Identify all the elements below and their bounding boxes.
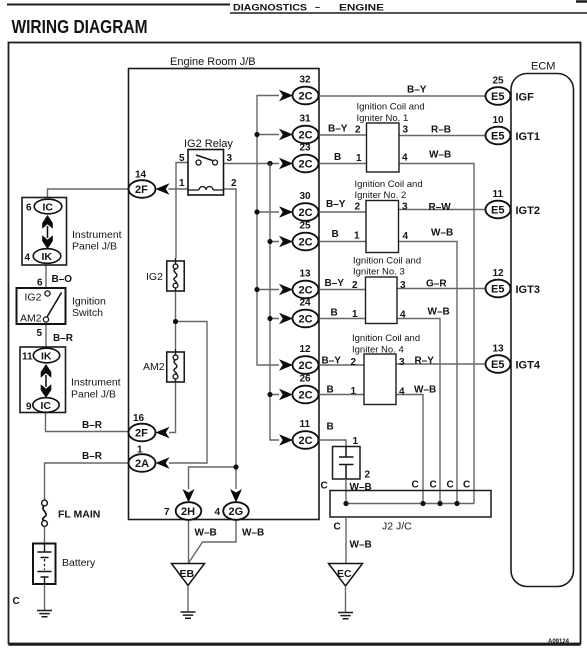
junction block Instrument Panel J/B (lower) <box>20 347 121 413</box>
connector E5 pin 11 (IGT2) <box>486 189 540 218</box>
svg-text:4: 4 <box>215 507 221 518</box>
connector 2C pin 25 <box>279 221 319 251</box>
svg-text:IGT4: IGT4 <box>516 360 541 372</box>
wire Battery to ground <box>44 584 46 610</box>
svg-text:DIAGNOSTICS: DIAGNOSTICS <box>233 3 307 14</box>
connector E5 pin 10 (IGT1) <box>486 115 540 144</box>
connector 2G pin 4 <box>215 489 249 520</box>
connector E5 pin 12 (IGT3) <box>486 268 540 297</box>
connector IC pin 6 (upper J/B) <box>26 199 62 214</box>
wire W-B coil 1 pin 4 to J2 J/C <box>399 164 474 504</box>
internal double arrow (upper J/B) <box>42 215 53 249</box>
wire W-B coil 2 pin 4 to J2 J/C <box>399 242 458 504</box>
svg-text:2: 2 <box>351 357 357 368</box>
svg-text:2: 2 <box>355 202 361 213</box>
svg-text:2A: 2A <box>135 458 149 470</box>
svg-text:Igniter No. 2: Igniter No. 2 <box>355 190 407 201</box>
fusible link FL MAIN <box>42 500 101 526</box>
svg-text:C: C <box>321 481 328 492</box>
wire B 2C(11) to capacitor <box>319 440 347 447</box>
wire R-Y coil 4 pin 3 to ECM IGT4 <box>396 363 486 365</box>
svg-text:EC: EC <box>337 568 352 580</box>
svg-text:C: C <box>430 480 437 491</box>
svg-text:25: 25 <box>300 221 312 232</box>
svg-text:5: 5 <box>37 328 43 339</box>
wire B 2C(26) to coil 4 pin 1 <box>319 394 365 396</box>
svg-text:Instrument: Instrument <box>72 229 122 241</box>
ignition coil and igniter No. 1 <box>328 102 451 173</box>
svg-text:3: 3 <box>227 153 233 164</box>
svg-text:5: 5 <box>179 153 185 164</box>
svg-text:G–R: G–R <box>426 279 447 290</box>
wire capacitor to J2 J/C <box>345 479 347 504</box>
svg-text:W–B: W–B <box>242 528 264 539</box>
svg-text:1: 1 <box>353 436 359 447</box>
wire R-B coil 1 pin 3 to ECM IGT1 <box>399 135 486 137</box>
svg-text:AM2: AM2 <box>20 313 42 325</box>
wire W-B coil 4 pin 4 to J2 J/C <box>396 395 423 504</box>
svg-text:Battery: Battery <box>62 557 96 569</box>
svg-text:2: 2 <box>231 178 237 189</box>
wire relay pin 5 to fuse IG2 <box>176 163 188 259</box>
svg-text:R–B: R–B <box>431 125 451 136</box>
svg-text:B: B <box>327 385 334 396</box>
svg-text:10: 10 <box>493 115 505 126</box>
svg-text:1: 1 <box>352 309 358 320</box>
wire relay pin 3 to 2C(23) <box>224 163 280 165</box>
wire B-Y 2C(13) to coil 3 pin 2 <box>319 289 366 291</box>
svg-text:FL MAIN: FL MAIN <box>58 509 100 521</box>
junction block Instrument Panel J/B (upper) <box>22 198 122 266</box>
wire B-O from 2F(14) to Instrument Panel J/B upper <box>48 189 129 198</box>
relay IG2 Relay <box>179 138 237 195</box>
ignition coil and igniter No. 3 <box>325 256 450 324</box>
svg-text:2H: 2H <box>181 506 195 518</box>
svg-text:Engine Room J/B: Engine Room J/B <box>170 56 256 68</box>
svg-text:Ignition Coil and: Ignition Coil and <box>353 256 421 267</box>
svg-text:W–B: W–B <box>428 307 450 318</box>
svg-text:B–R: B–R <box>82 420 103 431</box>
svg-text:11: 11 <box>493 189 504 200</box>
svg-text:B–Y: B–Y <box>322 356 342 367</box>
svg-text:25: 25 <box>493 76 505 87</box>
ground EB <box>172 564 205 586</box>
svg-text:1: 1 <box>179 178 185 189</box>
connector 2C pin 32 <box>279 75 319 105</box>
svg-text:J2 J/C: J2 J/C <box>382 521 412 533</box>
svg-text:Switch: Switch <box>72 307 103 319</box>
wire R-W coil 2 pin 3 to ECM IGT2 <box>399 209 486 211</box>
svg-text:Panel J/B: Panel J/B <box>72 241 117 253</box>
svg-text:24: 24 <box>300 298 312 309</box>
wire internal bus of J2 J/C <box>346 503 474 505</box>
svg-text:Igniter No. 3: Igniter No. 3 <box>353 267 405 278</box>
svg-text:ENGINE: ENGINE <box>339 3 384 14</box>
connector 2C pin 12 <box>279 344 319 374</box>
svg-text:B–Y: B–Y <box>325 278 345 289</box>
svg-text:Instrument: Instrument <box>71 377 121 389</box>
connector 2C pin 30 <box>279 191 319 221</box>
svg-text:W–B: W–B <box>350 482 372 493</box>
svg-text:Ignition Coil and: Ignition Coil and <box>352 333 420 344</box>
svg-text:R–W: R–W <box>429 202 452 213</box>
wire B-Y 2C(12) to coil 4 pin 2 <box>319 364 365 366</box>
svg-text:W–B: W–B <box>431 228 453 239</box>
connector E5 pin 13 (IGT4) <box>486 344 541 373</box>
svg-text:Ignition Coil and: Ignition Coil and <box>355 179 423 190</box>
connector IK pin 4 (upper J/B) <box>25 249 61 264</box>
svg-text:W–B: W–B <box>195 528 217 539</box>
battery <box>33 544 96 585</box>
svg-text:9: 9 <box>26 402 32 413</box>
svg-text:23: 23 <box>300 143 312 154</box>
svg-text:W–B: W–B <box>350 540 372 551</box>
svg-text:11: 11 <box>22 352 33 363</box>
svg-text:11: 11 <box>300 419 311 430</box>
switch Ignition Switch <box>17 288 107 325</box>
svg-text:B: B <box>331 308 338 319</box>
fuse AM2 <box>167 349 185 382</box>
svg-text:4: 4 <box>399 387 405 398</box>
internal double arrow (lower J/B) <box>41 364 52 398</box>
wire W-B coil 3 pin 4 to J2 J/C <box>397 319 440 504</box>
junction node (IG2/AM2) <box>173 319 178 324</box>
junction node (bus2 tap) <box>267 161 272 166</box>
capacitor (noise filter condenser) <box>333 447 361 480</box>
wire fuse AM2 to 2F(16) <box>169 382 176 433</box>
svg-text:3: 3 <box>400 280 406 291</box>
bus wire 1 (B-Y feeds) <box>257 96 279 366</box>
connector 2H pin 7 <box>164 489 201 520</box>
svg-text:IG2 Relay: IG2 Relay <box>184 138 233 150</box>
wire Ignition Switch terminal 5 to Instrument Panel J/B lower <box>45 324 47 347</box>
connector 2C pin 31 <box>279 114 319 144</box>
svg-text:IGF: IGF <box>516 92 535 104</box>
connector IK pin 11 (lower J/B) <box>22 348 60 363</box>
wire B 2C(23) to coil 1 pin 1 <box>319 163 367 165</box>
svg-text:ECM: ECM <box>531 61 555 73</box>
svg-text:IC: IC <box>43 202 54 214</box>
wire B 2C(25) to coil 2 pin 1 <box>319 241 367 243</box>
ignition coil and igniter No. 2 <box>326 179 453 253</box>
connector 2F pin 14 <box>129 170 170 198</box>
wire B-R from Instrument Panel J/B lower to 2F(16) <box>46 413 129 432</box>
svg-text:W–B: W–B <box>429 150 451 161</box>
ignition coil and igniter No. 4 <box>322 333 437 405</box>
svg-text:Ignition: Ignition <box>72 296 106 308</box>
wire relay pin 2 to 2G and branch to 2H <box>189 189 237 489</box>
wire B-R from 2A(1) to FL MAIN <box>45 463 129 500</box>
wire FL MAIN to Battery <box>44 527 46 544</box>
svg-text:31: 31 <box>300 114 312 125</box>
svg-text:4: 4 <box>403 231 409 242</box>
svg-text:IGT1: IGT1 <box>516 131 540 143</box>
svg-text:3: 3 <box>403 125 409 136</box>
svg-text:14: 14 <box>135 170 147 181</box>
svg-text:32: 32 <box>300 75 312 86</box>
svg-text:1: 1 <box>351 386 357 397</box>
svg-text:R–Y: R–Y <box>415 356 435 367</box>
svg-text:3: 3 <box>402 202 408 213</box>
svg-text:B–Y: B–Y <box>407 85 427 96</box>
svg-text:26: 26 <box>300 374 312 385</box>
svg-text:IG2: IG2 <box>146 271 163 283</box>
wire fuse IG2 to fuse AM2 <box>175 291 177 349</box>
svg-text:B–Y: B–Y <box>328 124 348 135</box>
wire 2G to ground EB <box>189 520 237 564</box>
wire 2A(1) branch to IG2/AM2 junction <box>169 322 207 464</box>
svg-text:W–B: W–B <box>414 385 436 396</box>
fuse IG2 <box>167 258 185 291</box>
svg-text:C: C <box>447 480 454 491</box>
svg-text:6: 6 <box>26 203 32 214</box>
ground (battery) <box>37 611 52 617</box>
svg-text:IGT2: IGT2 <box>516 205 540 217</box>
svg-text:3: 3 <box>399 357 405 368</box>
svg-text:IG2: IG2 <box>25 292 42 304</box>
svg-text:A09124: A09124 <box>548 639 570 645</box>
svg-text:IC: IC <box>41 400 52 412</box>
wire J2 J/C to ground EC <box>345 517 347 564</box>
svg-text:2G: 2G <box>229 506 244 518</box>
svg-text:C: C <box>463 480 470 491</box>
svg-text:C: C <box>13 596 20 607</box>
svg-text:Panel J/B: Panel J/B <box>71 389 116 401</box>
svg-text:2: 2 <box>352 280 358 291</box>
wire B-Y 2C(30) to coil 2 pin 2 <box>319 211 367 213</box>
svg-text:AM2: AM2 <box>143 361 165 373</box>
connector 2A pin 1 <box>129 445 170 472</box>
wire B 2C(24) to coil 3 pin 1 <box>319 318 366 320</box>
wire 2H to ground EB <box>188 520 190 564</box>
ground EC <box>329 564 363 587</box>
wire B-Y 2C(32) to ECM IGF <box>319 95 486 97</box>
svg-text:B–R: B–R <box>82 451 103 462</box>
svg-text:16: 16 <box>133 413 145 424</box>
svg-text:1: 1 <box>354 231 360 242</box>
svg-text:2F: 2F <box>135 184 148 196</box>
svg-text:IK: IK <box>42 251 53 263</box>
wire G-R coil 3 pin 3 to ECM IGT3 <box>397 288 486 290</box>
connector 2C pin 13 <box>279 269 319 299</box>
svg-text:–: – <box>315 2 320 12</box>
connector 2C pin 24 <box>279 298 319 328</box>
svg-text:4: 4 <box>25 253 31 264</box>
svg-text:Ignition Coil and: Ignition Coil and <box>357 102 425 113</box>
svg-text:4: 4 <box>400 310 406 321</box>
wire relay pin 1 to 2F(14) <box>169 188 189 190</box>
svg-text:12: 12 <box>493 268 505 279</box>
connector IC pin 9 (lower J/B) <box>26 398 59 413</box>
svg-text:7: 7 <box>164 507 170 518</box>
svg-text:12: 12 <box>300 344 312 355</box>
svg-text:WIRING DIAGRAM: WIRING DIAGRAM <box>12 16 148 37</box>
svg-text:13: 13 <box>300 269 312 280</box>
header rule left <box>7 4 230 6</box>
svg-text:30: 30 <box>300 191 312 202</box>
svg-text:IK: IK <box>41 351 52 363</box>
svg-text:B–Y: B–Y <box>326 199 346 210</box>
svg-text:1: 1 <box>356 153 362 164</box>
svg-text:2F: 2F <box>135 428 148 440</box>
svg-text:6: 6 <box>37 278 43 289</box>
connector E5 pin 25 (IGF) <box>486 76 535 105</box>
svg-text:EB: EB <box>180 568 195 580</box>
svg-text:2: 2 <box>365 470 371 481</box>
svg-text:B: B <box>332 229 339 240</box>
svg-text:IGT3: IGT3 <box>516 284 540 296</box>
svg-text:B–O: B–O <box>52 274 73 285</box>
connector 2C pin 26 <box>279 374 319 404</box>
wire B-Y 2C(31) to coil 1 pin 2 <box>319 134 367 136</box>
svg-text:B: B <box>334 152 341 163</box>
svg-text:C: C <box>412 480 419 491</box>
svg-text:B–R: B–R <box>53 333 74 344</box>
bus wire 2 (B feeds) <box>270 164 279 441</box>
connector 2C pin 23 <box>279 143 319 173</box>
junction connector J2 J/C <box>330 491 491 518</box>
connector 2C pin 11 <box>279 419 319 449</box>
svg-text:13: 13 <box>493 344 505 355</box>
header rule right <box>230 12 587 14</box>
svg-text:4: 4 <box>402 153 408 164</box>
svg-text:C: C <box>334 522 341 533</box>
svg-text:2: 2 <box>355 125 361 136</box>
svg-text:B: B <box>327 422 334 433</box>
connector 2F pin 16 <box>129 413 170 441</box>
wire Instrument Panel J/B upper to Ignition Switch (terminal 6) <box>45 265 47 288</box>
